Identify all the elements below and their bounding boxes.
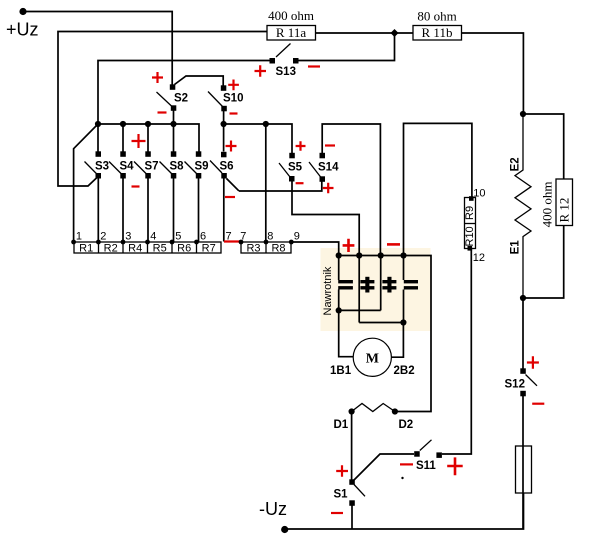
E branch top dot [520, 111, 526, 117]
svg-text:R10: R10 [464, 226, 476, 246]
svg-text:R5: R5 [153, 243, 167, 255]
svg-text:S12: S12 [505, 379, 525, 391]
svg-text:R 11a: R 11a [276, 25, 306, 40]
switch S1 [349, 479, 355, 485]
wire S3-bottom to R11a left (via x58 riser) [58, 32, 267, 187]
wire node10 to R9 top [404, 123, 472, 255]
svg-text:S14: S14 [318, 161, 339, 173]
svg-text:2: 2 [100, 231, 106, 243]
stray dot [401, 477, 403, 479]
svg-text:S3: S3 [95, 161, 109, 173]
minus mark S14 [325, 144, 335, 146]
svg-text:S11: S11 [416, 460, 436, 472]
wire node9 R8 corner to nawrotnik [291, 242, 338, 256]
svg-text:+Uz: +Uz [6, 20, 39, 40]
wire node1 from bus to R1 [74, 124, 98, 242]
winding E2 E1 [515, 114, 531, 298]
plus mark S10 [228, 80, 239, 91]
plus mark S5 [296, 141, 306, 151]
wire R11b right to E-branch top [462, 33, 524, 114]
svg-text:8: 8 [267, 231, 273, 243]
switch S10 [221, 85, 227, 91]
svg-text:Nawrotnik: Nawrotnik [322, 266, 334, 315]
stub S7 [147, 124, 149, 152]
svg-text:12: 12 [473, 252, 485, 264]
svg-text:R4: R4 [128, 243, 142, 255]
plus mark S12 [527, 356, 539, 369]
bus wire right group [224, 124, 292, 153]
contact C3 [380, 256, 382, 311]
plus mark S1 [336, 465, 348, 476]
contact C2 [358, 256, 360, 323]
junction under R11b [391, 29, 399, 37]
nawrotnik inner wire left [339, 309, 381, 311]
svg-text:R9: R9 [464, 206, 476, 220]
minus mark S1 [331, 512, 343, 514]
svg-text:R8: R8 [271, 243, 285, 255]
svg-text:S13: S13 [276, 66, 296, 78]
motor M [353, 338, 391, 376]
switch S11 [414, 451, 420, 457]
wire S11 right to R10 bottom [442, 249, 471, 454]
switch S4 [120, 151, 126, 157]
plus mark S11 [447, 457, 463, 475]
svg-text:R 12: R 12 [557, 198, 572, 223]
wire E branch to S12 [522, 298, 524, 369]
wire S6 bottom to S14 bottom [227, 179, 322, 192]
svg-text:E1: E1 [510, 240, 522, 255]
resistor D1-D2 [352, 404, 395, 412]
svg-text:R 11b: R 11b [422, 25, 453, 40]
svg-text:1B1: 1B1 [330, 365, 352, 377]
svg-text:2B2: 2B2 [394, 365, 415, 377]
svg-text:-Uz: -Uz [259, 499, 287, 519]
wire S5 bottom to nawrotnik [292, 182, 359, 256]
E branch bottom dot [520, 295, 526, 301]
plus mark S6 [226, 141, 237, 152]
svg-text:9: 9 [294, 231, 300, 243]
svg-text:R6: R6 [177, 243, 191, 255]
resistor R12 [523, 114, 564, 179]
resistor bank R1 R2 R4 R5 R6 R7 [74, 242, 221, 253]
plus mark S2 [152, 72, 163, 83]
bus junction dots [95, 121, 101, 127]
wire S1 top to S11 left [354, 454, 414, 480]
node -Uz terminal dot [281, 526, 288, 533]
node +Uz terminal dot [19, 8, 26, 15]
switch S6 [221, 152, 227, 158]
minus mark S11 [400, 463, 413, 465]
svg-text:5: 5 [175, 231, 181, 243]
svg-text:D1: D1 [334, 419, 349, 431]
contact C1 [338, 256, 340, 311]
wire motor right [392, 323, 404, 358]
switch S9 [196, 151, 202, 157]
resistor bank R3 R8 [241, 242, 291, 253]
svg-text:400 ohm: 400 ohm [540, 182, 555, 228]
nawrotnik top bus [339, 256, 431, 412]
svg-text:3: 3 [125, 231, 131, 243]
switch S8 [171, 151, 177, 157]
fuse [516, 446, 532, 493]
switch S7 [145, 151, 151, 157]
svg-text:400 ohm: 400 ohm [268, 8, 314, 23]
bus wire left group [98, 124, 199, 152]
svg-text:S8: S8 [170, 161, 185, 173]
svg-text:D2: D2 [399, 419, 414, 431]
stub S4 [122, 124, 124, 152]
nawrotnik background box [321, 248, 431, 331]
wire D1 down to S1 [351, 412, 353, 480]
wire bottom bus [285, 493, 524, 529]
svg-text:S10: S10 [223, 93, 243, 105]
minus mark S4 [132, 185, 140, 187]
wire motor left [339, 310, 354, 356]
stub S8 [173, 124, 175, 152]
wire S14 top to nawrotnik [322, 124, 380, 256]
svg-text:S1: S1 [334, 489, 349, 501]
red wire node7 [224, 240, 241, 242]
svg-text:R3: R3 [246, 243, 260, 255]
minus mark nawrotnik [387, 243, 400, 246]
svg-text:R1: R1 [79, 243, 93, 255]
minus mark S10 [230, 112, 238, 114]
plus mark nawrotnik [343, 239, 355, 252]
svg-text:S9: S9 [195, 161, 209, 173]
stub S3 [97, 124, 99, 152]
svg-text:4: 4 [150, 231, 156, 243]
switch S2 [175, 76, 224, 86]
minus mark S12 [532, 403, 544, 405]
svg-text:1: 1 [76, 231, 82, 243]
resistor R10 R9 [465, 198, 476, 249]
switch S14 [320, 153, 326, 159]
svg-text:S5: S5 [288, 161, 303, 173]
wire S12 to fuse [522, 396, 524, 529]
minus mark S6 [225, 196, 235, 198]
minus mark S5 [296, 182, 304, 184]
switch S3 [96, 151, 102, 157]
svg-text:S6: S6 [220, 161, 234, 173]
wire +Uz to S2 top [23, 12, 172, 86]
wire S13 feed from node at x98 [98, 61, 270, 125]
wire S13 right to junction under R11b [298, 33, 395, 61]
svg-text:6: 6 [200, 231, 206, 243]
plus mark S13 [255, 65, 267, 76]
svg-text:S7: S7 [145, 161, 159, 173]
svg-text:E2: E2 [510, 157, 522, 171]
wire node8 long vertical [265, 124, 267, 242]
plus mark S14 [323, 183, 334, 194]
plus mark S4 [132, 134, 146, 148]
contact C4 [403, 256, 405, 323]
resistor row terminal dots [71, 240, 76, 245]
svg-text:M: M [366, 352, 379, 367]
svg-text:S2: S2 [174, 93, 188, 105]
svg-text:R2: R2 [104, 243, 118, 255]
switch S13 [270, 58, 276, 64]
switch S5 [289, 153, 295, 159]
svg-text:80 ohm: 80 ohm [417, 9, 456, 24]
svg-text:R7: R7 [202, 243, 216, 255]
nawrotnik inner wire right [359, 322, 403, 324]
switch S12 [520, 368, 526, 374]
minus mark S13 [308, 65, 320, 67]
minus mark S2 [158, 111, 167, 113]
wire R11a to R11b [316, 32, 414, 34]
svg-text:S4: S4 [120, 161, 135, 173]
